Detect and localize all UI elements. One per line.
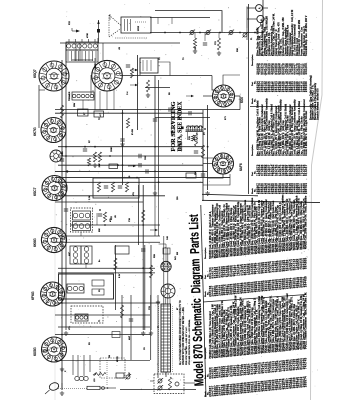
svg-text:6T632: 6T632	[117, 355, 119, 362]
svg-text:265794: 265794	[304, 183, 308, 194]
svg-text:1M: 1M	[109, 355, 111, 358]
svg-text:ALL VOLTAGES MEASURED FROM SOC: ALL VOLTAGES MEASURED FROM SOCKET CONTAC…	[179, 300, 182, 365]
svg-text:50K: 50K	[99, 228, 101, 232]
svg-text:49A920 Coil, 250M Ohm 1/4 W.: 49A920 Coil, 250M Ohm 1/4 W. Knob, Bakel…	[305, 195, 308, 249]
svg-text:Cond. 8 Mfd. 450 V. Pilot Lig: Cond. 8 Mfd. 450 V. Pilot Light Socket	[305, 111, 308, 156]
svg-text:Terminal Strip Res. .05 Mfd.: Terminal Strip Res. .05 Mfd. 200 V	[305, 15, 308, 56]
svg-text:6F6G: 6F6G	[31, 291, 35, 300]
svg-text:265874: 265874	[304, 376, 308, 387]
svg-text:54A211 Trimmer Condenser Tube: 54A211 Trimmer Condenser Tube, 50M Ohm 1…	[305, 292, 308, 349]
svg-text:IF 455: IF 455	[132, 128, 134, 135]
svg-text:264459: 264459	[304, 276, 308, 287]
svg-text:43A203: 43A203	[304, 63, 308, 75]
svg-text:6X5G: 6X5G	[33, 347, 37, 356]
svg-text:MFD: MFD	[95, 63, 97, 68]
svg-text:6SQ7: 6SQ7	[33, 69, 37, 78]
svg-text:6.3V: 6.3V	[119, 273, 121, 278]
svg-text:6AF6: 6AF6	[239, 163, 243, 171]
svg-text:59A859: 59A859	[304, 257, 308, 269]
svg-text:Description: Description	[204, 347, 207, 359]
svg-text:6K6G: 6K6G	[33, 238, 37, 247]
svg-text:470K: 470K	[87, 33, 89, 38]
svg-text:6SC7: 6SC7	[33, 187, 37, 196]
svg-text:2.2M: 2.2M	[89, 195, 91, 200]
svg-text:PER VOLT METER — LINE 117 V. A: PER VOLT METER — LINE 117 V. A.C.	[185, 326, 188, 365]
svg-text:OSC: OSC	[62, 151, 64, 156]
svg-text:Description: Description	[251, 54, 254, 66]
svg-text:DATA, SEE INDEX: DATA, SEE INDEX	[176, 101, 183, 152]
svg-text:TRIMMER: TRIMMER	[69, 91, 71, 101]
svg-text:Description: Description	[251, 144, 254, 156]
svg-text:OSC: OSC	[145, 155, 147, 160]
svg-text:.1MF: .1MF	[99, 163, 101, 168]
svg-text:31A317: 31A317	[304, 164, 308, 176]
svg-text:25M: 25M	[74, 103, 76, 107]
svg-text:6X4: 6X4	[240, 97, 244, 103]
svg-text:Service Manual Model 870: Service Manual Model 870	[316, 88, 319, 120]
svg-text:SW: SW	[195, 172, 197, 175]
svg-text:100K: 100K	[111, 147, 113, 152]
svg-text:ANT: ANT	[128, 335, 131, 340]
svg-text:SPKR: SPKR	[138, 25, 140, 31]
svg-text:5W: 5W	[177, 252, 179, 255]
svg-text:AVC: AVC	[68, 251, 71, 256]
svg-text:Description: Description	[204, 247, 207, 259]
svg-text:74A743: 74A743	[304, 357, 308, 369]
svg-text:6K7G: 6K7G	[33, 127, 37, 136]
svg-text:CHASSIS WITH 1000 OHM-PER-VOLT: CHASSIS WITH 1000 OHM-PER-VOLT METER — L…	[182, 307, 185, 365]
svg-text:265280: 265280	[304, 81, 308, 92]
svg-text:A: A	[257, 7, 261, 9]
